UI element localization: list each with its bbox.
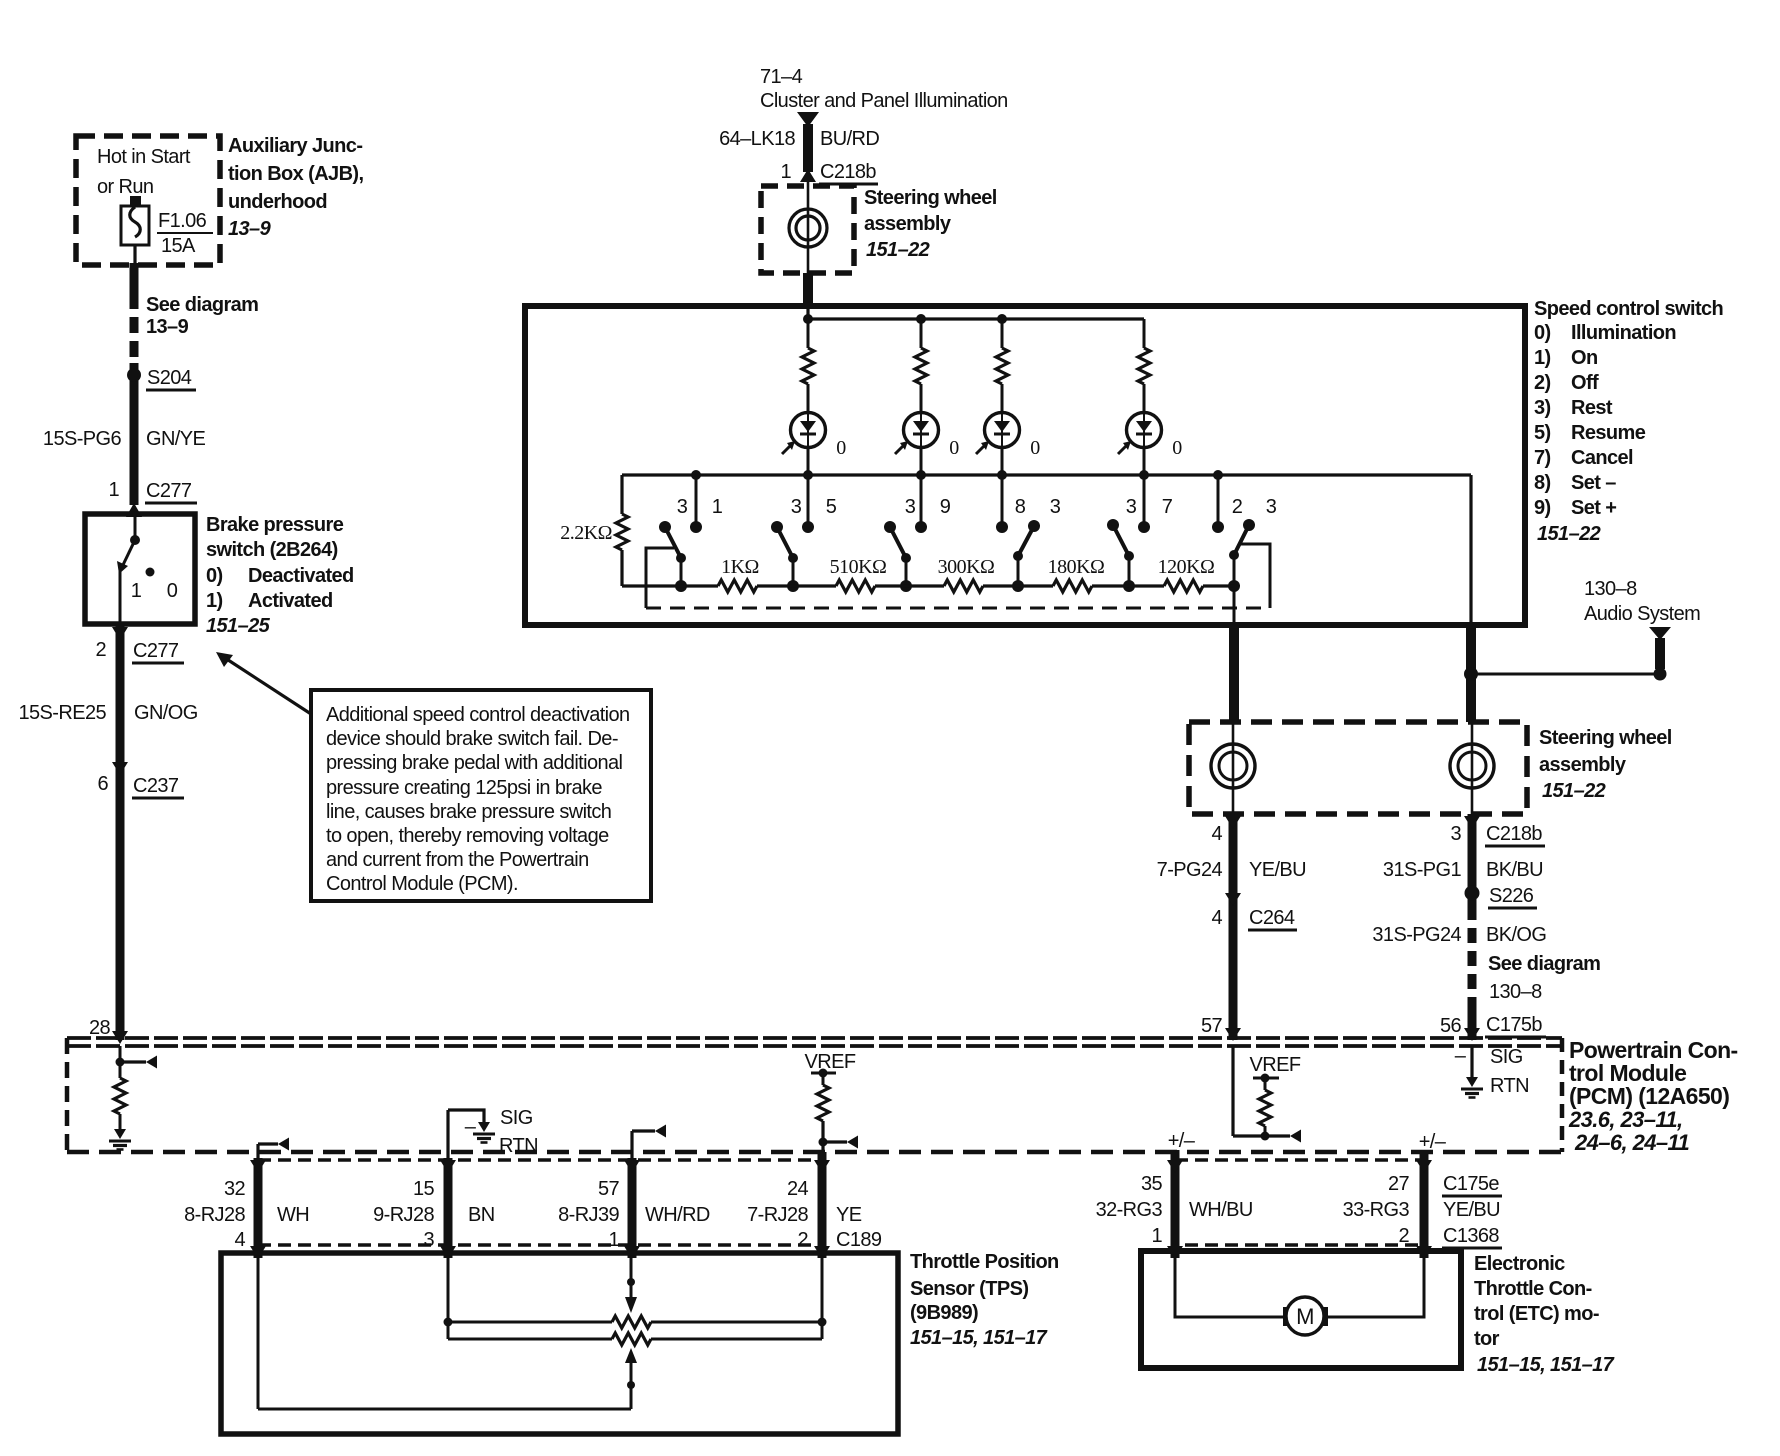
svg-text:56: 56 <box>1440 1015 1462 1037</box>
svg-text:Off: Off <box>1571 372 1599 394</box>
bus node stub1 <box>691 470 701 480</box>
svg-text:3: 3 <box>1050 496 1061 518</box>
lamp branch 2 resistor <box>915 348 927 384</box>
switch 6 output wire <box>1233 555 1236 624</box>
svg-text:GN/YE: GN/YE <box>146 428 205 450</box>
svg-text:tor: tor <box>1474 1328 1500 1350</box>
svg-text:7: 7 <box>1162 496 1173 518</box>
svg-text:151–22: 151–22 <box>1537 523 1601 545</box>
svg-text:C218b: C218b <box>820 161 876 183</box>
switch internal feed wire <box>134 516 137 540</box>
svg-text:3: 3 <box>423 1229 434 1251</box>
svg-text:C237: C237 <box>133 775 179 797</box>
svg-text:VREF: VREF <box>805 1051 856 1073</box>
svg-text:C277: C277 <box>146 480 192 502</box>
resistor 2.2K leg <box>620 475 623 514</box>
switch contact dot <box>130 535 140 545</box>
lamp branch 3 wire <box>1001 319 1004 348</box>
svg-text:and current from the Powertrai: and current from the Powertrain <box>326 849 589 871</box>
illumination lamp 3 <box>976 412 1020 454</box>
svg-text:VREF: VREF <box>1250 1054 1301 1076</box>
svg-text:trol (ETC) mo-: trol (ETC) mo- <box>1474 1303 1599 1325</box>
svg-text:Control Module (PCM).: Control Module (PCM). <box>326 873 518 895</box>
svg-text:35: 35 <box>1141 1173 1163 1195</box>
svg-text:C264: C264 <box>1249 907 1295 929</box>
svg-text:Throttle Con-: Throttle Con- <box>1474 1278 1592 1300</box>
switch position dot <box>146 568 155 577</box>
svg-text:See diagram: See diagram <box>1488 953 1600 975</box>
svg-text:31S-PG24: 31S-PG24 <box>1372 924 1461 946</box>
lamp branch 3 resistor <box>996 348 1008 384</box>
connector arrow C277 pin 2 <box>112 627 128 640</box>
svg-text:5: 5 <box>826 496 837 518</box>
switch 4 arm <box>1028 520 1040 532</box>
resistor 2.2K <box>616 514 628 550</box>
svg-text:1: 1 <box>1151 1225 1162 1247</box>
svg-text:3): 3) <box>1534 397 1551 419</box>
svg-text:C218b: C218b <box>1486 823 1542 845</box>
TPS element track B <box>448 1338 612 1341</box>
resistor chain bus <box>622 584 718 587</box>
svg-text:3: 3 <box>677 496 688 518</box>
right bus leg to exit <box>1469 475 1472 624</box>
node entry <box>803 314 813 324</box>
svg-text:0: 0 <box>167 580 178 602</box>
VREF 1 resistor <box>817 1085 829 1121</box>
resistor 120K <box>1164 580 1203 592</box>
svg-text:510KΩ: 510KΩ <box>830 556 887 578</box>
svg-text:assembly: assembly <box>864 213 952 235</box>
svg-text:Audio System: Audio System <box>1584 603 1700 625</box>
wire pin 15 BN <box>444 1158 453 1258</box>
svg-text:See diagram: See diagram <box>146 294 258 316</box>
svg-text:2.2KΩ: 2.2KΩ <box>560 522 612 544</box>
audio tap wire <box>1471 673 1660 676</box>
svg-text:151–15, 151–17: 151–15, 151–17 <box>1477 1354 1615 1376</box>
resistor 1K <box>718 580 757 592</box>
svg-text:24: 24 <box>787 1178 809 1200</box>
svg-text:RTN: RTN <box>1490 1075 1529 1097</box>
splice S204 <box>127 368 141 382</box>
pin 28 pulldown resistor <box>114 1078 126 1114</box>
svg-text:WH: WH <box>277 1204 309 1226</box>
svg-text:24–6, 24–11: 24–6, 24–11 <box>1574 1130 1689 1155</box>
svg-text:3: 3 <box>1450 823 1461 845</box>
switch 1 arm <box>659 521 671 533</box>
brake pressure switch box <box>85 514 195 624</box>
note box <box>311 690 651 901</box>
fuse fraction bar <box>157 232 213 234</box>
svg-text:Additional speed control deact: Additional speed control deactivation <box>326 704 630 726</box>
mechanical linkage dashed <box>646 607 1270 610</box>
svg-text:to open, thereby removing volt: to open, thereby removing voltage <box>326 825 609 847</box>
svg-text:1): 1) <box>1534 347 1551 369</box>
svg-text:C1368: C1368 <box>1443 1225 1499 1247</box>
svg-text:13–9: 13–9 <box>228 218 272 240</box>
ground SIG RTN right <box>1461 1077 1483 1098</box>
svg-text:(9B989): (9B989) <box>910 1302 978 1324</box>
wire dashed see-diagram section <box>130 293 139 363</box>
svg-text:YE/BU: YE/BU <box>1443 1199 1500 1221</box>
svg-text:7-RJ28: 7-RJ28 <box>747 1204 808 1226</box>
svg-text:pressing brake pedal with addi: pressing brake pedal with additional <box>326 752 623 774</box>
svg-text:2: 2 <box>797 1229 808 1251</box>
svg-text:7-PG24: 7-PG24 <box>1157 859 1223 881</box>
note arrow <box>222 656 311 714</box>
svg-text:WH/RD: WH/RD <box>645 1204 710 1226</box>
wire fuse to AJB edge <box>133 245 136 266</box>
electronic throttle control motor box <box>1141 1251 1461 1368</box>
svg-text:YE: YE <box>836 1204 862 1226</box>
switch 3 arm <box>884 521 896 533</box>
svg-text:Hot in Start: Hot in Start <box>97 146 191 168</box>
svg-text:28: 28 <box>89 1017 111 1039</box>
bus node stub6 <box>1213 470 1223 480</box>
svg-text:300KΩ: 300KΩ <box>938 556 995 578</box>
TPS wiper return <box>625 1348 637 1363</box>
wire through clockspring 2 <box>1232 722 1235 814</box>
mechanical linkage hook right <box>1241 544 1270 608</box>
lamp branch 4 resistor <box>1138 348 1150 384</box>
resistor 300K <box>944 580 983 592</box>
svg-text:2: 2 <box>1232 496 1243 518</box>
illumination lamp 2 <box>895 412 939 454</box>
svg-text:Illumination: Illumination <box>1571 322 1676 344</box>
wire 31S-PG1 BK/BU <box>1468 814 1477 905</box>
svg-text:4: 4 <box>1211 823 1222 845</box>
svg-text:0): 0) <box>206 565 223 587</box>
svg-text:180KΩ: 180KΩ <box>1048 556 1105 578</box>
wire brake switch to pin 28 <box>116 624 125 1040</box>
svg-text:M: M <box>1296 1304 1314 1329</box>
TPS wire 1 internal <box>257 1258 260 1409</box>
svg-text:1: 1 <box>131 580 142 602</box>
TPS connector row dashed box <box>258 1160 822 1245</box>
svg-text:57: 57 <box>1201 1015 1223 1037</box>
svg-text:0: 0 <box>1030 437 1040 459</box>
throttle position sensor box <box>221 1253 898 1434</box>
illumination feed bus <box>808 317 1144 320</box>
wire pin 24 YE <box>818 1152 827 1258</box>
svg-text:S226: S226 <box>1489 885 1534 907</box>
svg-text:BK/BU: BK/BU <box>1486 859 1543 881</box>
svg-text:1: 1 <box>712 496 723 518</box>
wire switch to clockspring right <box>1466 622 1476 722</box>
svg-text:8-RJ39: 8-RJ39 <box>558 1204 619 1226</box>
svg-text:switch (2B264): switch (2B264) <box>206 539 338 561</box>
node branch 2 <box>916 314 926 324</box>
TPS wire 4 internal <box>821 1258 824 1339</box>
svg-text:F1.06: F1.06 <box>158 210 207 232</box>
ground SIG RTN left <box>473 1122 495 1143</box>
svg-text:Auxiliary Junc-: Auxiliary Junc- <box>228 135 362 157</box>
lamp branch 2 wire <box>920 319 923 348</box>
VREF 2 resistor <box>1259 1090 1271 1126</box>
svg-text:5): 5) <box>1534 422 1551 444</box>
wire pin 57 WH/RD <box>628 1158 637 1258</box>
svg-text:BK/OG: BK/OG <box>1486 924 1546 946</box>
svg-text:0: 0 <box>836 437 846 459</box>
svg-text:BU/RD: BU/RD <box>820 128 879 150</box>
switch 2 arm <box>771 521 783 533</box>
PCM right boundary <box>1560 1038 1565 1152</box>
wire pin 27 YE/BU <box>1420 1150 1429 1258</box>
svg-text:57: 57 <box>598 1178 620 1200</box>
wire 31S-PG24 BK/OG dashed see-diagram <box>1468 905 1477 1008</box>
svg-text:9): 9) <box>1534 497 1551 519</box>
svg-text:S204: S204 <box>147 367 192 389</box>
svg-text:8): 8) <box>1534 472 1551 494</box>
svg-text:130–8: 130–8 <box>1584 578 1637 600</box>
svg-text:13–9: 13–9 <box>146 316 189 338</box>
illumination lamp 4 <box>1118 412 1162 454</box>
audio system off-page arrow <box>1649 627 1671 640</box>
svg-text:31S-PG1: 31S-PG1 <box>1383 859 1462 881</box>
svg-text:0): 0) <box>1534 322 1551 344</box>
svg-text:Rest: Rest <box>1571 397 1613 419</box>
resistor 180K <box>1053 580 1092 592</box>
entry stub <box>806 309 809 319</box>
resistor 510K <box>836 580 875 592</box>
fuse F1.06 top terminal <box>130 196 141 207</box>
svg-text:15S-RE25: 15S-RE25 <box>19 702 107 724</box>
svg-text:Steering wheel: Steering wheel <box>864 187 997 209</box>
switch common bus <box>622 473 1471 476</box>
wire S204 to C277 <box>130 363 139 505</box>
switch 6 stub <box>1217 475 1220 527</box>
svg-text:tion Box (AJB),: tion Box (AJB), <box>228 163 363 185</box>
svg-text:underhood: underhood <box>228 191 327 213</box>
switch 3 stub <box>920 475 923 527</box>
wire 57 internal stub <box>630 1131 633 1160</box>
SIG RTN internal right <box>1470 1046 1473 1077</box>
svg-text:15A: 15A <box>161 235 196 257</box>
svg-text:C175e: C175e <box>1443 1173 1499 1195</box>
mechanical linkage hook left <box>646 548 674 608</box>
svg-text:32-RG3: 32-RG3 <box>1096 1199 1163 1221</box>
bus node stub3 <box>916 470 926 480</box>
TPS element track A <box>447 1258 450 1339</box>
svg-text:WH/BU: WH/BU <box>1189 1199 1253 1221</box>
wire 64-LK18 BU/RD <box>803 124 813 172</box>
svg-text:3: 3 <box>1126 496 1137 518</box>
svg-text:SIG: SIG <box>1490 1046 1523 1068</box>
bus node stub5 <box>1139 470 1149 480</box>
svg-text:+/–: +/– <box>1419 1131 1447 1153</box>
svg-text:C175b: C175b <box>1486 1014 1542 1036</box>
SIG RTN internal left <box>446 1110 449 1160</box>
svg-text:Cancel: Cancel <box>1571 447 1633 469</box>
TPS wiper feed <box>630 1258 633 1300</box>
svg-text:15: 15 <box>413 1178 435 1200</box>
off-page arrow <box>797 112 819 127</box>
svg-text:GN/OG: GN/OG <box>134 702 198 724</box>
arrow into PCM pin 28 <box>112 1031 128 1044</box>
wire 32 internal stub <box>256 1144 259 1160</box>
svg-text:151–25: 151–25 <box>206 615 271 637</box>
svg-text:Deactivated: Deactivated <box>248 565 354 587</box>
svg-text:27: 27 <box>1388 1173 1410 1195</box>
svg-text:or Run: or Run <box>97 176 153 198</box>
svg-text:9-RJ28: 9-RJ28 <box>373 1204 434 1226</box>
clockspring coil right <box>1450 744 1494 788</box>
ground pin 28 <box>109 1129 131 1150</box>
svg-text:Set +: Set + <box>1571 497 1616 519</box>
svg-text:Electronic: Electronic <box>1474 1253 1565 1275</box>
svg-text:151–22: 151–22 <box>866 239 930 261</box>
svg-text:Sensor (TPS): Sensor (TPS) <box>910 1278 1028 1300</box>
svg-text:1: 1 <box>608 1229 619 1251</box>
svg-text:0: 0 <box>949 437 959 459</box>
switch 5 arm <box>1107 519 1119 531</box>
ETC connector row dashed box <box>1175 1160 1424 1245</box>
wire 7-PG24 YE/BU <box>1229 814 1238 1040</box>
wire pin 35 WH/BU <box>1171 1150 1180 1258</box>
switch 1 stub <box>695 475 698 527</box>
svg-text:Throttle Position: Throttle Position <box>910 1251 1059 1273</box>
arrow into brake switch <box>126 503 142 517</box>
svg-text:assembly: assembly <box>1539 754 1627 776</box>
PCM bottom boundary <box>67 1150 1562 1155</box>
svg-text:1: 1 <box>108 479 119 501</box>
speed control switch outline <box>525 306 1525 625</box>
svg-text:0: 0 <box>1172 437 1182 459</box>
Auxiliary Junction Box dashed outline <box>76 136 220 265</box>
switch 2 stub <box>807 475 810 527</box>
svg-text:71–4: 71–4 <box>760 66 803 88</box>
svg-text:2: 2 <box>95 639 106 661</box>
svg-text:Resume: Resume <box>1571 422 1646 444</box>
svg-text:device should brake switch fai: device should brake switch fail. De- <box>326 728 618 750</box>
svg-text:33-RG3: 33-RG3 <box>1343 1199 1410 1221</box>
svg-text:RTN: RTN <box>499 1135 538 1157</box>
svg-text:7): 7) <box>1534 447 1551 469</box>
svg-text:–: – <box>465 1116 477 1138</box>
svg-text:64–LK18: 64–LK18 <box>719 128 795 150</box>
fuse F1.06 body <box>121 206 149 245</box>
svg-text:1KΩ: 1KΩ <box>721 556 759 578</box>
ETC wire 2 internal <box>1328 1258 1424 1317</box>
svg-text:3: 3 <box>905 496 916 518</box>
clockspring coil left <box>1211 744 1255 788</box>
svg-text:1: 1 <box>780 161 791 183</box>
wire through clockspring <box>807 182 810 273</box>
fuse F1.06 element squiggle <box>130 207 141 237</box>
svg-text:151–15, 151–17: 151–15, 151–17 <box>910 1327 1048 1349</box>
PCM left boundary <box>65 1038 70 1154</box>
svg-text:C277: C277 <box>133 640 179 662</box>
PCM top boundary <box>67 1036 1562 1040</box>
svg-text:BN: BN <box>468 1204 495 1226</box>
switch 4 stub <box>1001 475 1004 527</box>
pin 28 internal circuit <box>119 1046 122 1078</box>
svg-text:1): 1) <box>206 590 223 612</box>
svg-text:8-RJ28: 8-RJ28 <box>184 1204 245 1226</box>
svg-text:32: 32 <box>224 1178 246 1200</box>
svg-text:151–22: 151–22 <box>1542 780 1606 802</box>
svg-text:YE/BU: YE/BU <box>1249 859 1306 881</box>
lamp branch 1 resistor <box>802 348 814 384</box>
steering wheel assembly dashed box <box>761 186 854 273</box>
svg-text:SIG: SIG <box>500 1107 533 1129</box>
ETC wire 1 internal <box>1175 1258 1283 1317</box>
svg-text:Set –: Set – <box>1571 472 1616 494</box>
svg-text:15S-PG6: 15S-PG6 <box>43 428 122 450</box>
svg-text:–: – <box>1455 1045 1467 1067</box>
wire through clockspring 3 <box>1471 722 1474 814</box>
svg-text:4: 4 <box>1211 907 1222 929</box>
switch 5 stub <box>1143 475 1146 527</box>
node branch 3 <box>997 314 1007 324</box>
svg-text:Steering wheel: Steering wheel <box>1539 727 1672 749</box>
svg-text:130–8: 130–8 <box>1489 981 1542 1003</box>
switch lower wire <box>119 571 122 624</box>
svg-text:3: 3 <box>791 496 802 518</box>
wire switch to clockspring left <box>1229 622 1239 722</box>
svg-text:6: 6 <box>97 773 108 795</box>
clockspring coil <box>789 209 827 247</box>
wire pin 32 WH <box>254 1158 263 1258</box>
lamp branch 1 wire <box>807 319 810 348</box>
connector arrow C264 pin 4 <box>1225 893 1241 906</box>
switch 6 arm <box>1243 519 1255 531</box>
svg-text:pressure creating 125psi in br: pressure creating 125psi in brake <box>326 777 602 799</box>
svg-text:120KΩ: 120KΩ <box>1158 556 1215 578</box>
svg-text:+/–: +/– <box>1168 1130 1196 1152</box>
svg-text:On: On <box>1571 347 1598 369</box>
svg-text:4: 4 <box>234 1229 245 1251</box>
splice S226 <box>1465 886 1480 901</box>
svg-text:Brake pressure: Brake pressure <box>206 514 344 536</box>
svg-text:2): 2) <box>1534 372 1551 394</box>
svg-text:Cluster and Panel Illumination: Cluster and Panel Illumination <box>760 90 1008 112</box>
svg-text:(PCM) (12A650): (PCM) (12A650) <box>1569 1083 1729 1109</box>
svg-text:Speed control switch: Speed control switch <box>1534 298 1723 320</box>
switch arm <box>122 540 135 567</box>
bus node stub4 <box>997 470 1007 480</box>
connector arrow C237 pin 6 <box>112 762 128 775</box>
svg-text:3: 3 <box>1266 496 1277 518</box>
lamp branch 4 wire <box>1143 319 1146 348</box>
bus node stub2 <box>803 470 813 480</box>
motor M <box>1283 1307 1294 1326</box>
illumination lamp 1 <box>782 412 826 454</box>
svg-text:line, causes brake pressure sw: line, causes brake pressure switch <box>326 801 611 823</box>
svg-text:8: 8 <box>1015 496 1026 518</box>
connector arrow C218b pin 4 <box>1225 816 1241 829</box>
svg-text:23.6, 23–11,: 23.6, 23–11, <box>1568 1107 1683 1132</box>
svg-text:9: 9 <box>940 496 951 518</box>
wire into speed control switch <box>803 273 813 309</box>
svg-text:Activated: Activated <box>248 590 333 612</box>
steering wheel assembly 2 dashed box <box>1189 722 1527 814</box>
svg-text:C189: C189 <box>836 1229 882 1251</box>
svg-text:2: 2 <box>1398 1225 1409 1247</box>
wire AJB to S204 solid <box>130 263 139 293</box>
